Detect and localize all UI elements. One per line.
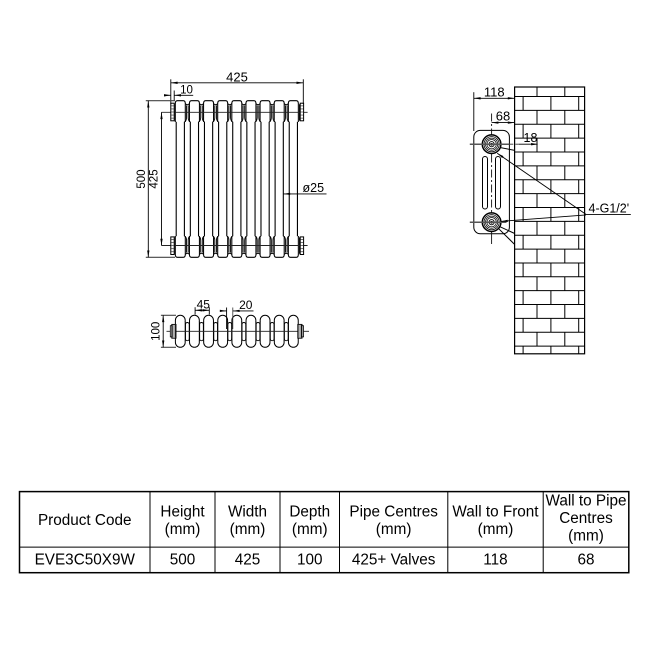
dimension 68: dimension line (492, 121, 515, 123)
svg-text:118: 118 (484, 84, 505, 99)
dimension 100 depth: text (151, 322, 163, 341)
front view: top header humps (9 sections) (175, 101, 298, 122)
front view: top-left bushing (171, 103, 174, 121)
front view: bottom-right bushing (300, 237, 303, 255)
dimension 68: text (496, 109, 510, 124)
dimension 500 height: text (136, 169, 148, 188)
plan view: left bushing (170, 324, 176, 338)
dimension 45 pitch: dimension line (195, 309, 209, 311)
leader 4-G1/2: text (589, 202, 630, 216)
front view: column tubes (176, 122, 297, 236)
plan view: section ovals (175, 315, 298, 347)
svg-text:(mm): (mm) (376, 521, 412, 538)
svg-text:Product Code: Product Code (38, 512, 132, 529)
svg-text:20: 20 (239, 298, 253, 312)
side view: top tapping (482, 135, 501, 154)
svg-text:68: 68 (577, 552, 594, 569)
plan view: right bushing (298, 324, 304, 338)
svg-text:425+ Valves: 425+ Valves (352, 552, 436, 569)
svg-text:45: 45 (197, 297, 211, 311)
dimension 500 height: dimension line (147, 101, 149, 258)
svg-text:68: 68 (496, 109, 510, 124)
svg-text:100: 100 (151, 322, 163, 341)
front view: bottom header humps (175, 236, 298, 257)
dimension 118: dimension line (474, 97, 515, 99)
plan view: waist connectors (186, 323, 289, 341)
dimension 20 gap: text (239, 298, 253, 312)
svg-text:Wall to Pipe: Wall to Pipe (545, 493, 626, 510)
side view: bottom tapping centre line (470, 221, 507, 223)
dimension 118: extension line (473, 92, 475, 131)
table: data row texts (35, 552, 595, 569)
side view: column grooves (483, 157, 501, 210)
side view: vertical centre line (491, 114, 493, 245)
dimension 425 pipe centres: text (149, 169, 161, 188)
dimension 100 depth: dimension line (162, 315, 164, 347)
side view: top pipe to wall (500, 148, 515, 151)
svg-text:ø25: ø25 (303, 181, 325, 195)
svg-text:Width: Width (228, 503, 267, 520)
dimension 45 pitch: text (197, 297, 211, 311)
svg-text:(mm): (mm) (568, 528, 604, 545)
table: grid (20, 492, 629, 573)
svg-text:4-G1/2': 4-G1/2' (589, 202, 630, 216)
front view: bottom tapping centre line (162, 245, 308, 247)
svg-text:Height: Height (160, 503, 205, 520)
table: header texts (38, 493, 627, 545)
front view: end tube slivers (174, 104, 299, 254)
leader 4-G1/2: lines (497, 153, 631, 222)
front view: saddle curves between humps (185, 104, 288, 105)
side view: bottom tapping (482, 213, 501, 232)
dimension 425 width: text (226, 70, 248, 85)
svg-text:18: 18 (524, 131, 538, 145)
svg-text:(mm): (mm) (165, 521, 201, 538)
front view: bottom-left bushing (171, 237, 174, 255)
plan view: centre line (167, 330, 310, 332)
svg-text:(mm): (mm) (292, 521, 328, 538)
dimension 20 gap: dimension line (220, 310, 254, 312)
svg-text:EVE3C50X9W: EVE3C50X9W (35, 552, 136, 569)
svg-text:(mm): (mm) (230, 521, 266, 538)
dimension 425 width: extension lines (171, 79, 303, 104)
dimension 20 gap: extension lines (227, 308, 233, 330)
svg-text:Centres: Centres (559, 510, 613, 527)
side view: radiator outline (474, 130, 510, 233)
svg-text:Wall to Front: Wall to Front (452, 503, 539, 520)
dimension 118: text (484, 84, 505, 99)
dimension 10: text (180, 85, 193, 97)
svg-text:100: 100 (297, 552, 323, 569)
dimension 10: extension line (173, 91, 175, 101)
front view: bottom saddle curves (185, 253, 288, 254)
side view: brick wall (515, 87, 585, 354)
side view: top tapping centre line (470, 143, 538, 145)
svg-text:425: 425 (149, 169, 161, 188)
dimension 45 pitch: extension lines (195, 307, 209, 314)
svg-text:425: 425 (235, 552, 261, 569)
svg-text:Depth: Depth (289, 503, 330, 520)
svg-text:(mm): (mm) (478, 521, 514, 538)
svg-text:500: 500 (170, 552, 196, 569)
dimension 425 width: dimension line (171, 82, 303, 84)
dimension 100 depth: extension lines (161, 315, 176, 347)
svg-text:10: 10 (180, 85, 193, 97)
dimension 18: text (524, 131, 538, 145)
svg-text:118: 118 (483, 552, 507, 569)
front view: top tapping centre line (162, 111, 308, 113)
front view: top-right bushing (300, 103, 303, 121)
svg-text:500: 500 (136, 169, 148, 188)
front view: narrow side tubes between sections (184, 105, 289, 252)
svg-text:425: 425 (226, 70, 248, 85)
svg-text:Pipe Centres: Pipe Centres (349, 503, 438, 520)
side view: bottom pipes to wall (499, 227, 515, 245)
plan view: waist fillets (185, 321, 289, 341)
dimension 10: dimension line (164, 94, 193, 96)
dimension 500 height: extension lines (146, 101, 175, 258)
leader diameter 25: text (303, 181, 325, 195)
leader diameter 25: line and arrow (283, 193, 326, 195)
dimension 425 pipe centres: dimension line (160, 112, 162, 245)
